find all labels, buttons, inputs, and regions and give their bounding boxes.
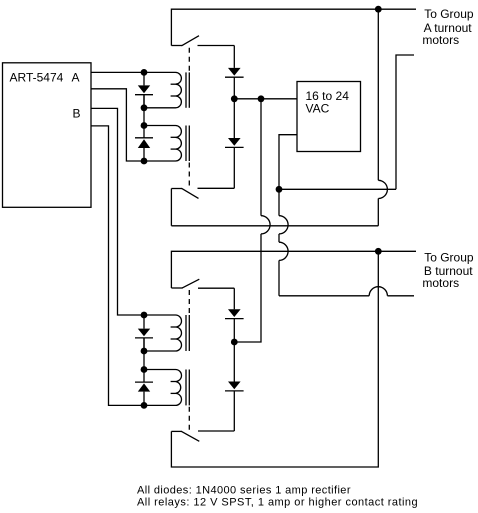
node: top rail junction dot — [375, 6, 382, 13]
wire VAC1 drop to lower diode column — [260, 99, 262, 216]
wire SW2 pivot down to crossover run — [170, 189, 172, 226]
wire into VAC source left terminal 1 — [261, 98, 297, 100]
node dot diode column A mid — [231, 95, 238, 102]
switch SW1 fixed contact wire — [198, 45, 235, 47]
switch SW1 pivot stub — [171, 45, 182, 47]
relay K3 coil — [171, 315, 182, 351]
relay K3 core bars — [186, 315, 189, 351]
node dot coil K4 bottom — [141, 402, 148, 409]
svg-text:All diodes: 1N4000 series 1 am: All diodes: 1N4000 series 1 amp rectifie… — [137, 484, 351, 496]
wire main riser lower part up to hop — [377, 199, 379, 226]
relay K3 actuator dashed link (top) — [188, 290, 190, 314]
svg-text:motors: motors — [422, 276, 459, 290]
wire hop (VAC1 drop over crossover run) — [261, 216, 270, 234]
wire VAC terminal 2 to node — [279, 135, 297, 190]
relay K4 actuator dashed link (bottom) — [188, 407, 190, 431]
relay K1 actuator dashed link (top) — [188, 48, 190, 72]
node dot coil K3 bottom — [141, 348, 148, 355]
wire hop (VAC2 drop over crossover run) — [279, 216, 288, 234]
svg-text:B: B — [73, 107, 81, 121]
node A1 dot — [141, 69, 148, 76]
wire coil K1 bottom stub — [144, 107, 176, 109]
wire crossover run from SW2 to main riser — [171, 225, 378, 227]
svg-text:A: A — [72, 70, 80, 84]
relay K1 core bars — [186, 72, 189, 107]
svg-text:To Group: To Group — [424, 250, 474, 264]
switch SW4 blade — [182, 432, 200, 442]
svg-text:To Group: To Group — [424, 7, 474, 21]
switch SW3 fixed contact wire — [198, 287, 234, 289]
wire main riser from B rail down to bottom rail — [171, 251, 378, 467]
diode D4 (cathode down) — [225, 99, 244, 189]
wire hop (Group B return over main riser) — [369, 287, 387, 296]
node dot coil K3 top — [141, 312, 148, 319]
switch SW1 blade — [182, 36, 200, 46]
wire Group B motors return left part — [279, 295, 369, 297]
wire coil K3 bottom stub — [144, 350, 176, 352]
wire VAC1 drop continues to lower node — [234, 234, 261, 342]
node dot coil K2 bottom — [141, 158, 148, 165]
wire pin B upper lead down to coil K3 top — [91, 108, 144, 315]
switch SW2 fixed contact wire — [198, 187, 235, 189]
wire pin A lower lead to coil K2 bottom — [91, 89, 144, 161]
node dot diode column B mid — [231, 339, 238, 346]
wire pin B lower lead down to coil K4 bottom — [91, 126, 144, 406]
relay K1 coil — [171, 72, 182, 107]
diode D3 (cathode down) — [225, 46, 244, 99]
switch SW3 pivot stub — [171, 287, 182, 289]
VAC power source box — [297, 82, 361, 152]
switch SW2 pivot stub — [171, 188, 182, 190]
svg-text:VAC: VAC — [306, 102, 330, 116]
wire pin A to node A1 — [91, 71, 144, 73]
wire coil K4 top stub — [144, 369, 176, 371]
relay K2 core bars — [186, 126, 189, 162]
wire between relay K3 and K4 nodes — [143, 338, 145, 382]
node dot coil K1 bottom — [141, 104, 148, 111]
ART-5474 controller box U1 — [3, 63, 92, 208]
wire hop (main riser over return wire) — [378, 180, 387, 198]
relay K2 actuator dashed link (bottom) — [188, 163, 190, 189]
wire coil K4 bottom stub — [144, 404, 176, 406]
wire Group B motors return right part — [387, 295, 414, 297]
wire node A1 to coil K1 top — [144, 71, 176, 73]
wire between relay K1 and K2 nodes — [143, 95, 145, 138]
wire hop (VAC2 drop over Group B rail) — [279, 242, 288, 260]
Group B rail wire — [171, 251, 416, 288]
node: Group B rail junction dot — [375, 248, 382, 255]
wire Group A motors return riser — [396, 55, 414, 189]
wire VAC2 drop to hop 1 — [278, 189, 280, 215]
node dot VAC terminal 1 — [258, 95, 265, 102]
wire coil K2 top stub — [144, 125, 176, 127]
diode D1 (across relay K1, cathode down) — [135, 72, 153, 107]
wire VAC2 drop to Group B return corner — [278, 260, 280, 295]
wire coil K2 bottom stub — [144, 160, 176, 162]
svg-text:motors: motors — [422, 33, 459, 47]
wire node to Group A motors return — [279, 188, 396, 190]
relay K2 coil — [171, 126, 182, 162]
node dot coil K2 top — [141, 122, 148, 129]
switch SW3 blade — [182, 279, 199, 288]
wire VAC2 drop between hops — [278, 234, 280, 242]
switch SW2 blade — [182, 188, 199, 198]
diode D6 (across relay K4, cathode up) — [135, 382, 153, 405]
diode D8 (cathode down) — [225, 342, 244, 431]
wire node to coil K3 top — [144, 314, 176, 316]
switch SW4 pivot stub — [171, 430, 182, 432]
relay K4 coil — [171, 370, 182, 406]
wire main riser upper part to top rail — [377, 9, 379, 180]
switch SW4 fixed contact wire — [198, 430, 234, 432]
wire diode node to VAC node — [234, 98, 261, 100]
diode D5 (across relay K3, cathode down) — [135, 315, 153, 351]
diode D7 (cathode down) — [225, 288, 244, 342]
diode D2 (across relay K2, cathode up) — [135, 138, 153, 161]
relay K4 core bars — [186, 370, 189, 406]
top rail wire (to Group A common) — [171, 9, 416, 45]
node dot coil K4 top — [141, 366, 148, 373]
svg-text:ART-5474: ART-5474 — [10, 70, 64, 84]
node dot VAC terminal 2 branch — [276, 186, 283, 193]
svg-text:All relays: 12 V SPST, 1 amp o: All relays: 12 V SPST, 1 amp or higher c… — [137, 496, 418, 508]
